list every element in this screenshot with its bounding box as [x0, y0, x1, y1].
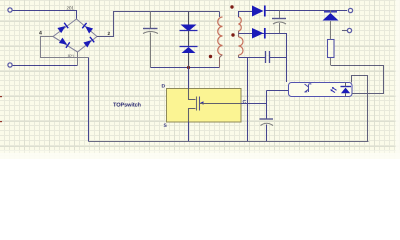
left edge artifact marks — [0, 96, 2, 97]
wire drain into box — [188, 68, 190, 89]
pin label S — [164, 124, 167, 128]
terminal output plus — [348, 8, 352, 12]
capacitor C1 stem top — [150, 12, 152, 29]
bridge label 2 — [108, 32, 110, 35]
terminal feedback tap — [347, 28, 351, 32]
opto phototransistor — [305, 84, 312, 93]
wire bridge AC bottom stub — [77, 52, 79, 66]
wire C pin row — [241, 103, 267, 105]
mosfet source lead — [189, 109, 196, 123]
resistor R1 stem bottom — [330, 58, 332, 66]
snubber diode VD6 (up) — [180, 46, 198, 48]
wire bridge minus L-path — [41, 37, 89, 58]
pin label D — [162, 84, 165, 87]
wire secondary return — [239, 34, 287, 83]
transformer bias lead bottom — [238, 55, 240, 58]
wire AC input top — [12, 11, 77, 20]
transformer bias dot — [231, 33, 234, 36]
bridge rectifier diamond edges — [53, 19, 97, 52]
mosfet channel bar — [196, 97, 198, 111]
bridge diode top-right — [82, 23, 93, 34]
bridge diode top-left — [57, 23, 68, 34]
transformer primary winding — [218, 17, 223, 55]
bridge diode bottom-left — [59, 37, 70, 47]
capacitor C4 plates — [260, 118, 274, 120]
transformer primary lead bottom — [220, 55, 223, 68]
transformer secondary winding — [239, 17, 242, 31]
optocoupler U2 box — [289, 83, 353, 97]
mosfet gate lead to C pin — [200, 103, 242, 105]
zener VD9 — [323, 13, 339, 21]
wire opto emitter row — [267, 90, 289, 92]
capacitor C2 plates — [272, 18, 286, 20]
wire bridge plus to top rail — [97, 12, 220, 37]
junction dot drain node — [187, 66, 190, 69]
resistor R1 — [328, 40, 335, 58]
label near top corner — [67, 6, 74, 9]
wire bias bottom row — [239, 57, 266, 59]
grid background — [0, 0, 400, 159]
transformer primary lead top — [219, 12, 221, 18]
opto LED diode — [341, 86, 352, 88]
bridge diode bottom-right — [83, 37, 94, 48]
capacitor C2 stem top — [279, 11, 281, 19]
wire output rail — [266, 10, 348, 12]
pin label C — [243, 100, 246, 104]
transformer bias winding — [239, 37, 244, 55]
opto LED arrows — [332, 88, 337, 93]
wire primary ground drop — [88, 58, 90, 142]
capacitor C4 stem bottom — [266, 125, 268, 142]
wire control cap drop — [266, 91, 268, 119]
capacitor C2 stem bottom — [279, 23, 281, 34]
terminal J1 top-left — [8, 8, 12, 12]
wire zener tap stub — [342, 30, 347, 32]
terminal J2 bottom-left — [8, 63, 12, 67]
capacitor C3 plates — [265, 51, 267, 63]
output diode VD7 — [252, 6, 264, 17]
snubber diode VD5 (down) — [181, 25, 197, 32]
ground rail — [89, 141, 369, 143]
TOPswitch body U1 — [167, 89, 242, 123]
transformer primary dot — [209, 55, 212, 58]
wire source to ground — [188, 122, 190, 142]
mosfet drain lead — [189, 89, 196, 100]
snubber stem bottom — [188, 53, 190, 68]
page margin fades — [396, 0, 400, 159]
mosfet gate arrow — [200, 101, 204, 104]
wire opto anode riser — [352, 76, 368, 142]
snubber stem top — [188, 12, 190, 26]
bridge label 4 — [39, 31, 42, 35]
major grid lines — [0, 0, 400, 159]
transformer secondary lead top — [239, 12, 253, 18]
bridge label JP — [67, 55, 74, 58]
bias diode VD8 — [252, 28, 264, 39]
resistor R1 stem top — [330, 21, 332, 40]
capacitor C1 plates — [143, 28, 158, 30]
wire opto cathode to resistor — [331, 66, 384, 94]
wire drain row — [151, 67, 220, 69]
mosfet gate bar — [199, 97, 201, 111]
TOPswitch label — [113, 102, 141, 106]
transformer secondary lead bottom — [238, 31, 240, 37]
transformer secondary dot — [230, 5, 233, 8]
wire control drop — [247, 58, 249, 142]
wire AC input bottom — [12, 65, 78, 67]
snubber mid stem — [188, 31, 190, 46]
capacitor C1 stem bottom — [150, 33, 152, 68]
